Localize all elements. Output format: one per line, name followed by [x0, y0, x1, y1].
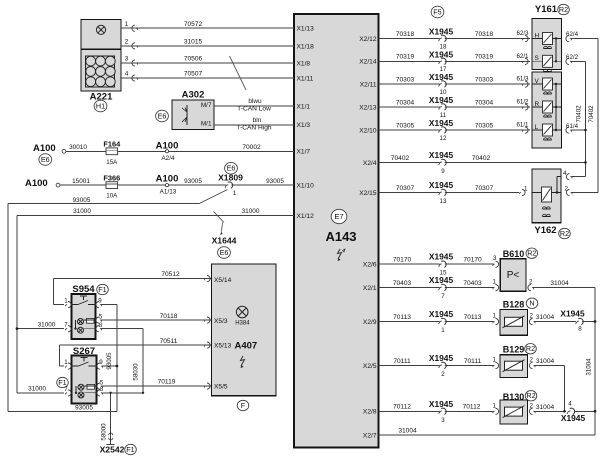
svg-text:E6: E6	[227, 164, 236, 173]
svg-text:13: 13	[440, 198, 447, 205]
svg-text:31000: 31000	[242, 208, 260, 215]
svg-text:70403: 70403	[393, 280, 412, 287]
svg-text:blwu: blwu	[248, 98, 262, 105]
svg-text:62/2: 62/2	[566, 54, 579, 61]
svg-text:8: 8	[99, 322, 103, 329]
svg-text:70402: 70402	[391, 155, 410, 162]
svg-text:X2542: X2542	[100, 445, 125, 455]
svg-text:70305: 70305	[475, 122, 494, 129]
svg-text:E7: E7	[334, 212, 343, 221]
svg-text:B129: B129	[503, 345, 525, 355]
svg-text:70403: 70403	[463, 280, 482, 287]
svg-text:X2/11: X2/11	[360, 81, 377, 88]
svg-text:70304: 70304	[475, 99, 494, 106]
svg-text:4: 4	[568, 401, 572, 408]
svg-text:R2: R2	[559, 5, 568, 14]
svg-text:70512: 70512	[161, 271, 180, 278]
svg-text:15A: 15A	[106, 159, 118, 166]
svg-text:93005: 93005	[184, 178, 202, 185]
svg-text:9: 9	[441, 168, 445, 175]
svg-text:93005: 93005	[106, 352, 113, 370]
svg-text:70402: 70402	[472, 155, 491, 162]
svg-text:X2/12: X2/12	[359, 36, 377, 43]
svg-text:F5: F5	[433, 7, 441, 16]
svg-text:7: 7	[64, 386, 68, 393]
svg-text:X1/12: X1/12	[297, 213, 315, 220]
svg-text:A2/4: A2/4	[161, 155, 175, 162]
svg-text:X1945: X1945	[560, 308, 585, 318]
svg-text:X1945: X1945	[561, 413, 586, 423]
svg-text:X1945: X1945	[429, 95, 454, 105]
svg-text:70507: 70507	[184, 71, 203, 78]
svg-text:1: 1	[125, 21, 129, 28]
svg-text:A100: A100	[33, 143, 56, 154]
svg-text:A407: A407	[235, 341, 258, 352]
svg-text:A100: A100	[156, 173, 179, 184]
svg-text:X2/7: X2/7	[363, 432, 377, 439]
svg-text:70318: 70318	[475, 31, 494, 38]
svg-text:X1945: X1945	[429, 180, 454, 190]
svg-text:70572: 70572	[184, 21, 203, 28]
svg-text:R2: R2	[527, 249, 536, 258]
svg-text:X1945: X1945	[429, 275, 454, 285]
svg-text:70319: 70319	[396, 54, 415, 61]
svg-text:X1945: X1945	[429, 118, 454, 128]
svg-text:X1/7: X1/7	[297, 149, 311, 156]
svg-text:70511: 70511	[160, 338, 178, 345]
svg-text:70113: 70113	[393, 314, 411, 321]
svg-text:X1945: X1945	[429, 309, 454, 319]
svg-text:70303: 70303	[475, 76, 494, 83]
svg-text:70402: 70402	[576, 105, 583, 123]
svg-text:9: 9	[99, 359, 103, 366]
svg-text:3: 3	[125, 56, 129, 63]
svg-text:E6: E6	[41, 155, 50, 164]
svg-text:F366: F366	[103, 174, 120, 183]
svg-text:X2/13: X2/13	[359, 104, 377, 111]
svg-text:X1945: X1945	[429, 399, 454, 409]
svg-text:1: 1	[441, 327, 445, 334]
svg-text:31000: 31000	[28, 385, 46, 392]
svg-text:93005: 93005	[266, 178, 284, 185]
svg-text:Y161: Y161	[535, 4, 558, 15]
svg-text:70303: 70303	[396, 76, 415, 83]
svg-text:70170: 70170	[463, 257, 482, 264]
svg-text:X5/13: X5/13	[214, 343, 232, 350]
svg-text:X1945: X1945	[429, 72, 454, 82]
svg-text:X2/9: X2/9	[363, 319, 377, 326]
svg-text:X1/1: X1/1	[297, 103, 311, 110]
svg-text:93005: 93005	[73, 197, 91, 204]
svg-text:70506: 70506	[184, 56, 203, 63]
svg-text:A143: A143	[325, 229, 356, 244]
svg-text:62/4: 62/4	[566, 31, 579, 38]
svg-text:R2: R2	[526, 391, 535, 400]
svg-text:70112: 70112	[393, 404, 411, 411]
svg-text:4: 4	[125, 71, 129, 78]
svg-text:58030: 58030	[133, 363, 140, 381]
svg-text:X2/5: X2/5	[363, 363, 377, 370]
svg-text:H1: H1	[96, 101, 105, 110]
svg-text:93005: 93005	[75, 405, 93, 412]
svg-text:X1945: X1945	[429, 150, 454, 160]
svg-text:70111: 70111	[464, 358, 482, 365]
svg-text:70170: 70170	[393, 257, 412, 264]
svg-text:70318: 70318	[396, 31, 415, 38]
svg-text:X2/4: X2/4	[363, 160, 377, 167]
svg-text:F: F	[241, 401, 246, 410]
svg-text:1: 1	[64, 298, 68, 305]
svg-text:70319: 70319	[475, 54, 494, 61]
svg-text:31004: 31004	[550, 280, 569, 287]
svg-text:F1: F1	[126, 445, 134, 454]
svg-text:X1945: X1945	[429, 353, 454, 363]
svg-text:F1: F1	[98, 285, 106, 294]
svg-text:70307: 70307	[396, 185, 415, 192]
svg-text:10A: 10A	[106, 193, 118, 200]
svg-text:X1/10: X1/10	[297, 183, 315, 190]
svg-text:70305: 70305	[396, 122, 415, 129]
svg-text:X1644: X1644	[212, 236, 237, 246]
svg-text:31015: 31015	[184, 39, 203, 46]
svg-text:T-CAN High: T-CAN High	[236, 124, 272, 131]
svg-text:H384: H384	[235, 320, 250, 326]
svg-text:31004: 31004	[585, 358, 592, 376]
svg-text:X2/1: X2/1	[363, 285, 377, 292]
svg-text:R2: R2	[526, 344, 535, 353]
svg-text:Y162: Y162	[534, 225, 556, 236]
svg-text:T-CAN Low: T-CAN Low	[237, 105, 271, 112]
svg-text:X1/11: X1/11	[297, 75, 314, 82]
svg-text:X2/8: X2/8	[363, 409, 377, 416]
svg-text:70119: 70119	[158, 379, 176, 386]
svg-text:M/7: M/7	[201, 102, 212, 109]
svg-text:X1945: X1945	[429, 252, 454, 262]
svg-text:7: 7	[64, 322, 68, 329]
svg-text:70307: 70307	[475, 185, 494, 192]
svg-text:70002: 70002	[242, 144, 261, 151]
svg-text:E6: E6	[220, 248, 229, 257]
svg-text:61/4: 61/4	[566, 123, 579, 130]
svg-text:70111: 70111	[393, 358, 411, 365]
svg-text:R2: R2	[560, 229, 569, 238]
svg-text:15001: 15001	[72, 178, 90, 185]
svg-text:12: 12	[440, 135, 447, 142]
svg-text:A100: A100	[25, 178, 48, 189]
svg-text:B610: B610	[503, 249, 525, 259]
svg-text:M/1: M/1	[201, 121, 212, 128]
svg-text:31004: 31004	[536, 404, 555, 411]
svg-text:2: 2	[125, 39, 129, 46]
svg-text:31004: 31004	[398, 428, 417, 435]
svg-text:1: 1	[64, 359, 68, 366]
svg-text:X2/10: X2/10	[359, 127, 377, 134]
svg-text:X1/13: X1/13	[297, 26, 315, 33]
svg-text:31004: 31004	[536, 358, 555, 365]
svg-text:8: 8	[578, 326, 582, 333]
svg-text:X2/6: X2/6	[363, 262, 377, 269]
svg-text:58000: 58000	[100, 423, 107, 441]
svg-text:8: 8	[100, 386, 104, 393]
svg-text:3: 3	[441, 417, 445, 424]
svg-text:70113: 70113	[464, 314, 482, 321]
svg-text:X2/14: X2/14	[359, 59, 377, 66]
svg-text:X5/3: X5/3	[214, 318, 228, 325]
svg-text:A302: A302	[182, 90, 205, 101]
svg-text:X5/5: X5/5	[214, 384, 228, 391]
svg-text:70304: 70304	[396, 99, 415, 106]
svg-text:30010: 30010	[69, 144, 87, 151]
svg-text:70112: 70112	[463, 404, 481, 411]
svg-text:X5/14: X5/14	[214, 277, 232, 284]
svg-text:B128: B128	[503, 299, 525, 309]
svg-text:X1945: X1945	[429, 27, 454, 37]
svg-text:31004: 31004	[536, 314, 555, 321]
svg-text:X1/18: X1/18	[297, 44, 315, 51]
svg-text:31000: 31000	[38, 321, 56, 328]
svg-text:2: 2	[441, 371, 445, 378]
svg-text:N: N	[529, 299, 534, 308]
svg-text:5: 5	[99, 313, 103, 320]
svg-text:X1/3: X1/3	[297, 122, 311, 129]
svg-text:31000: 31000	[73, 208, 91, 215]
svg-text:A1/13: A1/13	[160, 189, 177, 196]
svg-text:1: 1	[233, 190, 237, 197]
svg-text:9: 9	[98, 298, 102, 305]
svg-text:P<: P<	[507, 270, 520, 281]
svg-text:7: 7	[441, 293, 445, 300]
svg-text:E6: E6	[158, 111, 167, 120]
svg-text:70118: 70118	[160, 313, 178, 320]
svg-text:X2/15: X2/15	[359, 190, 377, 197]
svg-text:bln: bln	[253, 117, 262, 124]
svg-text:70402: 70402	[588, 105, 595, 123]
svg-text:X1/8: X1/8	[297, 60, 311, 67]
svg-text:X1945: X1945	[429, 49, 454, 59]
svg-text:F164: F164	[103, 140, 121, 149]
